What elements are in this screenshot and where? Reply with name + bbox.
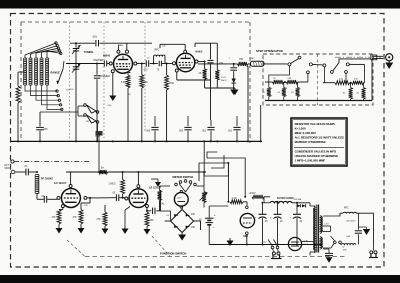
svg-text:105V: 105V xyxy=(95,136,101,138)
svg-text:RESISTOR VALUES IN OHMS: RESISTOR VALUES IN OHMS xyxy=(295,122,335,126)
svg-text:STEP ATTENUATOR: STEP ATTENUATOR xyxy=(256,49,283,53)
svg-text:UNLESS MARKED OTHERWISE: UNLESS MARKED OTHERWISE xyxy=(295,154,339,158)
svg-text:OB2: OB2 xyxy=(243,235,249,238)
svg-text:150: 150 xyxy=(144,81,149,84)
svg-text:FUNCTION SWITCH: FUNCTION SWITCH xyxy=(160,252,186,256)
svg-text:6AB4: 6AB4 xyxy=(118,44,124,47)
svg-text:NE-2: NE-2 xyxy=(86,121,92,123)
svg-text:JACK: JACK xyxy=(221,79,227,82)
svg-text:1 MEG: 1 MEG xyxy=(109,184,116,186)
svg-text:CAL.: CAL. xyxy=(160,203,165,206)
svg-text:MEG=1,000,000: MEG=1,000,000 xyxy=(295,131,317,135)
svg-text:45K: 45K xyxy=(191,214,196,216)
svg-text:.001: .001 xyxy=(92,35,98,39)
svg-text:PAD: PAD xyxy=(250,57,255,60)
svg-text:750: 750 xyxy=(239,58,244,61)
svg-text:.005 600V: .005 600V xyxy=(346,221,357,223)
svg-text:.001: .001 xyxy=(228,131,233,133)
svg-text:12K: 12K xyxy=(84,205,88,207)
svg-text:6BH6: 6BH6 xyxy=(103,54,110,58)
svg-text:.005: .005 xyxy=(179,131,184,133)
svg-text:4.7K: 4.7K xyxy=(232,198,237,200)
svg-text:CONDENSER VALUES IN MFD: CONDENSER VALUES IN MFD xyxy=(295,149,337,153)
svg-text:RANGE: RANGE xyxy=(51,71,61,75)
svg-text:RFC: RFC xyxy=(155,49,160,52)
svg-text:1/2 12AU7: 1/2 12AU7 xyxy=(54,181,67,185)
svg-text:MARKED OTHERWISE: MARKED OTHERWISE xyxy=(295,140,326,144)
svg-text:27K: 27K xyxy=(97,219,102,221)
svg-text:3.3K: 3.3K xyxy=(121,82,126,84)
svg-text:METER SWITCH: METER SWITCH xyxy=(173,175,194,179)
svg-text:.001: .001 xyxy=(202,131,207,133)
svg-text:1629: 1629 xyxy=(177,197,183,199)
svg-text:RF CHOKE: RF CHOKE xyxy=(41,179,53,181)
svg-text:25K: 25K xyxy=(150,220,155,222)
svg-text:100 MA: 100 MA xyxy=(294,198,302,201)
svg-text:+215V: +215V xyxy=(249,192,256,195)
svg-text:.005: .005 xyxy=(146,131,151,133)
svg-text:PADDER: PADDER xyxy=(94,59,104,62)
svg-text:B+: B+ xyxy=(101,167,105,170)
svg-text:6AK5: 6AK5 xyxy=(196,50,203,54)
svg-text:1K: 1K xyxy=(199,72,202,75)
svg-text:47K: 47K xyxy=(73,217,78,219)
svg-text:EXT: EXT xyxy=(5,165,10,167)
svg-text:15K: 15K xyxy=(191,227,196,229)
svg-text:TUNING: TUNING xyxy=(84,50,94,54)
svg-text:VOLT: VOLT xyxy=(221,77,227,79)
svg-text:+: + xyxy=(214,213,216,217)
svg-text:FILTER CHOKE: FILTER CHOKE xyxy=(277,198,294,200)
svg-text:K=1,000: K=1,000 xyxy=(295,126,306,130)
svg-text:RFC: RFC xyxy=(344,208,349,210)
svg-text:470: 470 xyxy=(144,69,149,72)
svg-text:115V: 115V xyxy=(262,242,267,244)
svg-text:TRIMMER: TRIMMER xyxy=(99,76,110,78)
svg-text:6.3V: 6.3V xyxy=(325,224,330,226)
svg-text:MOD: MOD xyxy=(5,168,11,170)
svg-text:.005: .005 xyxy=(43,129,48,131)
svg-text:1 MFD=1,000,000 MMF: 1 MFD=1,000,000 MMF xyxy=(295,158,326,162)
svg-text:270K: 270K xyxy=(169,82,175,85)
svg-text:ALL RESISTORS 1/2 WATT UNLESS: ALL RESISTORS 1/2 WATT UNLESS xyxy=(295,135,344,139)
svg-text:3.5A: 3.5A xyxy=(304,243,309,246)
